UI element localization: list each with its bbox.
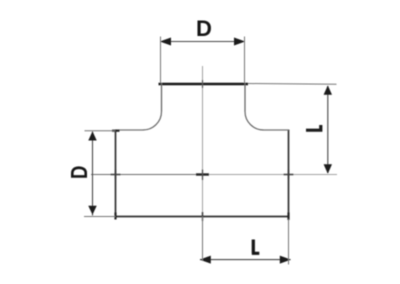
dimension L right: line xyxy=(327,86,329,173)
dimension D top: left arrowhead xyxy=(160,38,171,46)
extension line left-bottom xyxy=(84,216,116,218)
horizontal centerline right part xyxy=(203,174,337,176)
dimension D top: line xyxy=(160,41,245,43)
junction blob right-bottom corner xyxy=(287,213,289,221)
crossing tick branch top xyxy=(202,80,204,88)
label L bottom xyxy=(252,240,259,254)
dimension L bottom: right arrowhead xyxy=(280,256,291,264)
extension line right-top xyxy=(248,83,337,86)
vertical centerline xyxy=(202,66,204,261)
crossing tick bottom face xyxy=(202,212,204,221)
junction blob left-bottom corner xyxy=(114,213,116,220)
branch top face xyxy=(159,83,249,86)
dimension L right: bottom arrowhead xyxy=(324,164,332,174)
branch right edge xyxy=(244,83,246,112)
svg-text:D: D xyxy=(196,16,212,41)
crossing tick right face xyxy=(284,170,294,179)
run top-right face xyxy=(264,129,289,131)
svg-text:D: D xyxy=(67,166,92,179)
label L right (rotated) xyxy=(306,125,322,132)
dimension L bottom: left arrowhead xyxy=(200,256,211,264)
junction blob left-top corner xyxy=(112,130,120,132)
left face xyxy=(115,130,117,217)
bottom face xyxy=(115,216,289,218)
extension line top-right xyxy=(244,37,246,84)
run top-left face xyxy=(116,129,144,131)
dimension L bottom: line xyxy=(200,259,291,261)
dimension D left: bottom arrowhead xyxy=(88,206,96,215)
extension line top-left xyxy=(160,37,162,84)
branch left edge xyxy=(161,83,163,112)
right face xyxy=(288,130,290,220)
left fillet xyxy=(143,112,162,131)
dimension D left: line xyxy=(92,132,94,216)
crossing tick center xyxy=(196,173,209,175)
extension line bottom-center xyxy=(202,217,204,262)
dimension D top: right arrowhead xyxy=(234,38,245,46)
extension line bottom-right xyxy=(288,219,290,265)
right fillet xyxy=(245,112,264,131)
extension line left-top xyxy=(85,130,116,132)
dimension D left: top arrowhead xyxy=(88,131,96,140)
horizontal centerline left part xyxy=(91,174,203,176)
dimension L right: top arrowhead xyxy=(324,85,332,94)
crossing tick left face xyxy=(111,170,121,179)
